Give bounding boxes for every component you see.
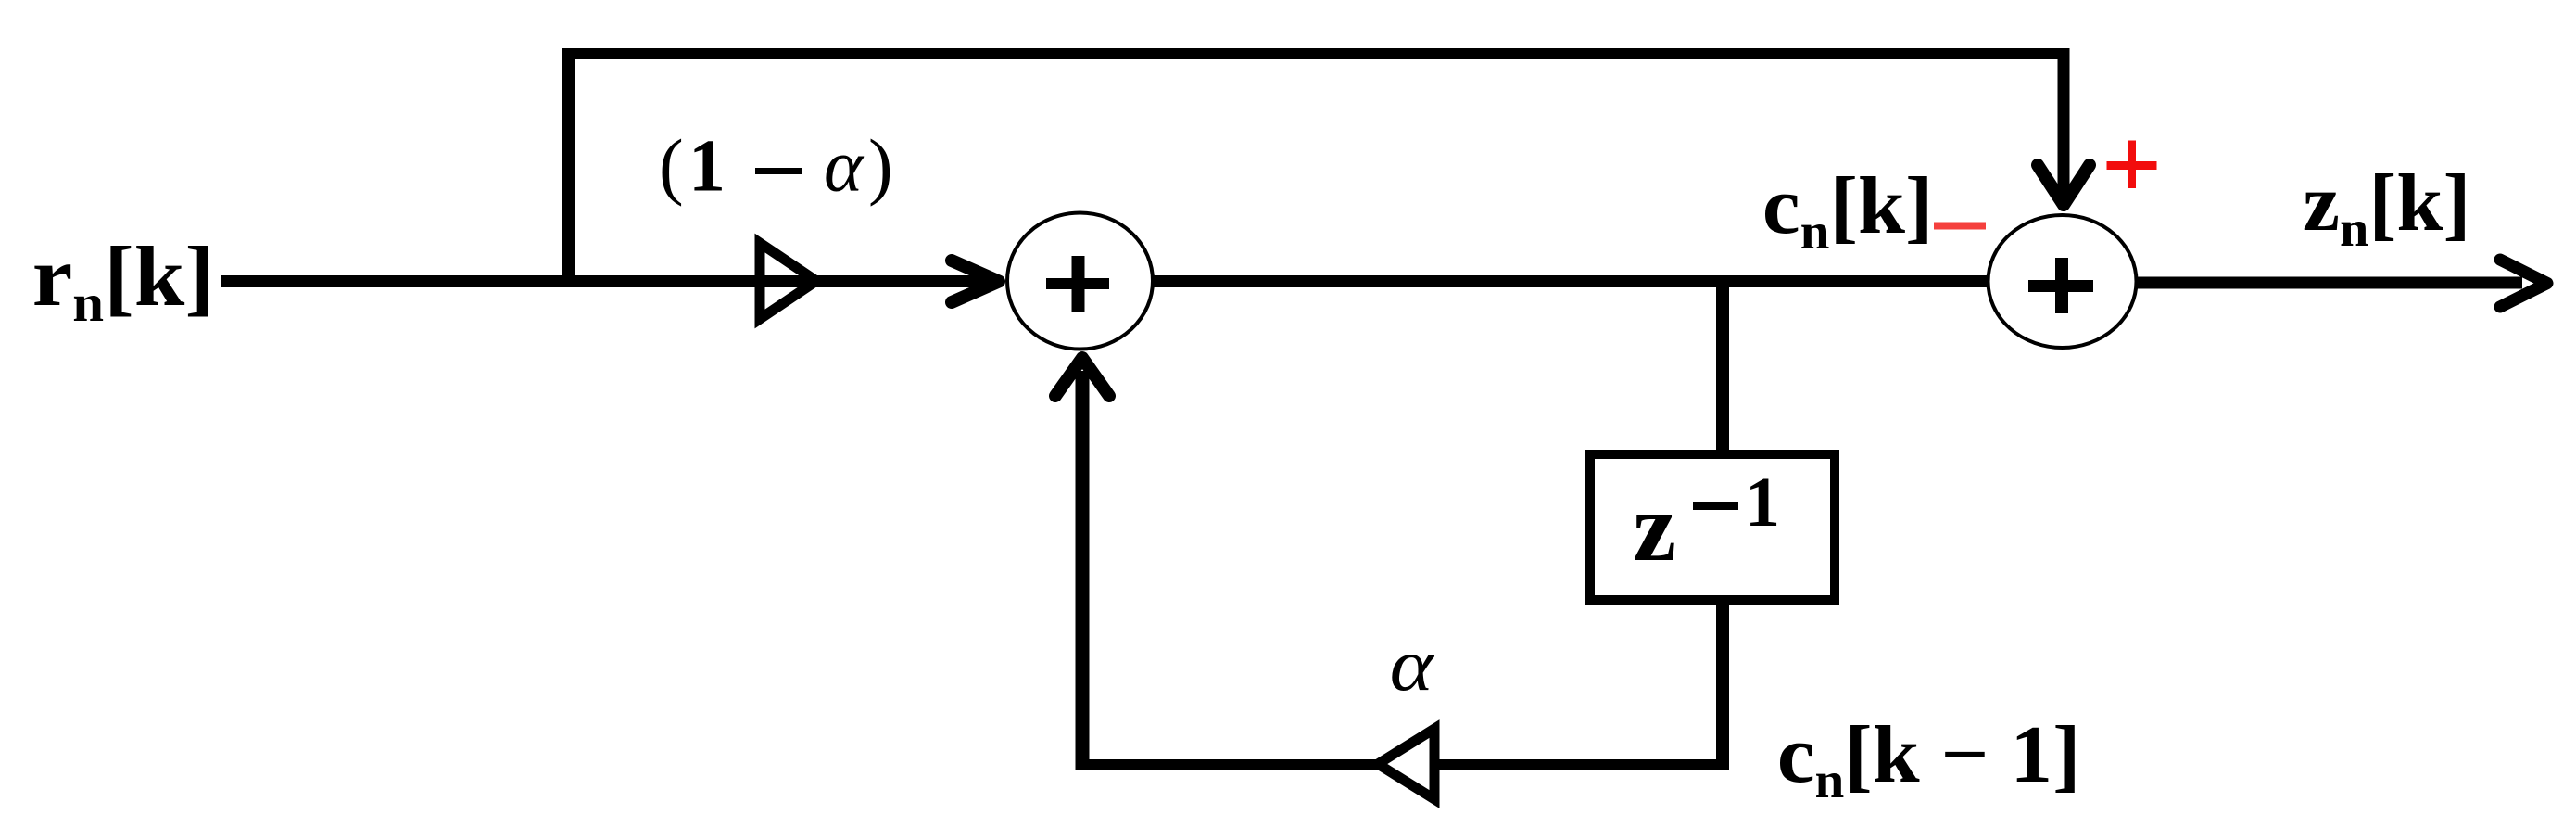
svg-text:α: α: [824, 126, 865, 208]
label alpha near triangle: [1390, 624, 1435, 706]
wire: junction vertical down to z-box: [1716, 278, 1729, 454]
wire: right vertical down into summer 2: [2058, 48, 2070, 197]
wire: feedback vertical up into summer 1: [1076, 371, 1090, 770]
delay box z^-1: [1590, 454, 1835, 600]
svg-text:1: 1: [688, 126, 726, 208]
svg-text:α: α: [1390, 624, 1435, 706]
svg-text:): ): [868, 126, 893, 208]
svg-text:rn[k]: rn[k]: [32, 229, 215, 333]
label c_n[k]: [1762, 161, 1934, 261]
wire: z-box down to bottom line: [1716, 600, 1729, 765]
label r_n[k]: [32, 229, 215, 333]
arrowhead down into summer 2: [2038, 165, 2090, 205]
gain triangle (1-alpha): [760, 243, 816, 319]
summer 1 circle: [1007, 213, 1153, 350]
wire: branch vertical up at x=613: [562, 48, 575, 287]
gain triangle alpha (left pointing, white fill hides line): [1378, 729, 1434, 799]
svg-text:z: z: [1633, 473, 1676, 581]
red minus label: [1934, 223, 1986, 230]
output arrowhead: [2500, 260, 2547, 307]
wire: output line from summer 2: [2137, 277, 2522, 289]
arrowhead into summer 1 (open chevron): [952, 261, 999, 302]
label (1 - alpha): [659, 126, 893, 208]
label z_n[k]: [2303, 159, 2470, 258]
svg-text:1: 1: [1745, 464, 1780, 541]
label z^-1 in delay box: [1633, 464, 1780, 581]
plus sign in summer 2: [2028, 280, 2093, 292]
wire: main input line r_n[k] to summer 1: [221, 275, 988, 287]
wire: bottom feedback line: [1076, 759, 1729, 770]
label c_n[k-1]: [1777, 710, 2081, 809]
arrowhead up into summer 1: [1055, 358, 1109, 396]
svg-text:(: (: [659, 126, 684, 208]
svg-text:zn[k]: zn[k]: [2303, 159, 2470, 258]
svg-text:cn[k − 1]: cn[k − 1]: [1777, 710, 2081, 809]
plus sign in summer 1: [1046, 278, 1109, 289]
summer 2 circle: [1989, 215, 2137, 348]
wire: summer1 to summer2: [1153, 275, 1989, 287]
wire: top feedback line: [562, 48, 2069, 59]
svg-text:cn[k]: cn[k]: [1762, 161, 1934, 261]
red plus label: [2107, 141, 2157, 189]
